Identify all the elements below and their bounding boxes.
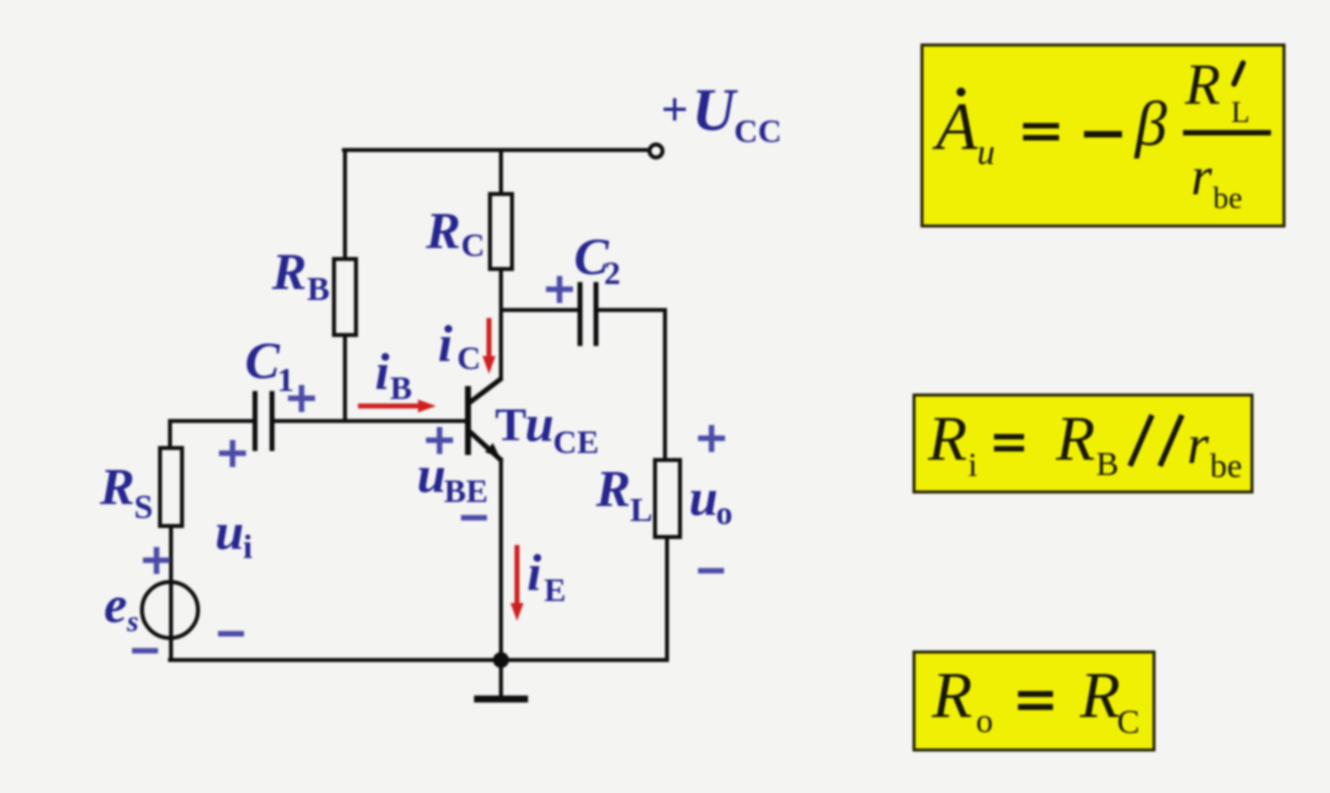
- svg-text:CC: CC: [734, 114, 782, 150]
- svg-text:A: A: [932, 88, 978, 164]
- svg-text:i: i: [375, 344, 390, 401]
- svg-text:C: C: [245, 333, 281, 390]
- svg-text:i: i: [438, 316, 453, 373]
- svg-text:2: 2: [604, 256, 621, 292]
- svg-text:BE: BE: [444, 474, 488, 510]
- svg-text:CE: CE: [553, 425, 599, 461]
- svg-text:e: e: [104, 577, 127, 634]
- svg-text:o: o: [976, 703, 993, 740]
- svg-text:be: be: [1213, 180, 1242, 215]
- svg-text:u: u: [215, 504, 244, 561]
- svg-text:i: i: [243, 529, 252, 566]
- svg-text:L: L: [630, 492, 653, 529]
- svg-text:+: +: [661, 83, 688, 136]
- svg-text:R: R: [425, 203, 461, 260]
- svg-text:L: L: [1231, 94, 1250, 129]
- svg-text:B: B: [307, 271, 330, 308]
- svg-text:R: R: [99, 459, 135, 516]
- svg-text:R: R: [595, 461, 631, 518]
- svg-text:u: u: [977, 132, 995, 172]
- svg-text:be: be: [1210, 448, 1242, 485]
- svg-text:B: B: [390, 371, 412, 407]
- svg-text:S: S: [134, 489, 153, 526]
- svg-text:i: i: [968, 447, 977, 484]
- svg-text:R: R: [271, 244, 307, 301]
- svg-text:C: C: [1117, 704, 1140, 741]
- svg-text:u: u: [689, 470, 718, 527]
- svg-text:s: s: [126, 605, 139, 638]
- svg-text:B: B: [1096, 446, 1119, 483]
- svg-text:1: 1: [277, 362, 294, 399]
- svg-text:C: C: [457, 341, 481, 377]
- svg-text:U: U: [692, 77, 738, 143]
- svg-text:T: T: [495, 399, 526, 451]
- svg-text:C: C: [461, 228, 485, 264]
- svg-text:u: u: [525, 396, 554, 453]
- svg-text:u: u: [417, 447, 446, 504]
- svg-text:E: E: [544, 573, 566, 609]
- svg-text:R: R: [1184, 52, 1220, 117]
- svg-text:r: r: [1191, 146, 1213, 206]
- svg-text:r: r: [1187, 414, 1209, 476]
- svg-text:R: R: [931, 659, 972, 732]
- svg-text:i: i: [527, 545, 542, 602]
- svg-text:R: R: [927, 403, 967, 474]
- svg-text:R: R: [1055, 403, 1095, 474]
- svg-text:β: β: [1133, 88, 1167, 159]
- svg-text:R: R: [1079, 659, 1120, 732]
- svg-text:o: o: [716, 496, 733, 532]
